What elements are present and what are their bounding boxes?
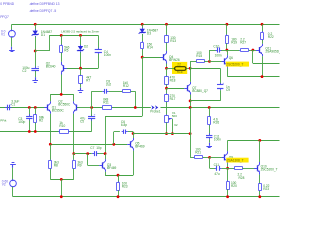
junction rail-D1	[34, 23, 37, 26]
wire driver node jog down	[209, 157, 211, 168]
label Q2 BC640	[46, 62, 56, 69]
label C2 value	[22, 66, 29, 73]
wire R21 left lead	[190, 157, 194, 159]
wire C8 arc top left	[92, 91, 103, 93]
wire base line to R7	[80, 68, 82, 76]
diode D3 1N4687	[139, 28, 146, 36]
wire R18 top	[166, 68, 168, 76]
label X1	[172, 111, 177, 118]
wire V1 to rail	[11, 24, 13, 30]
resistor R15 100	[196, 60, 206, 63]
wire R8 top	[50, 144, 52, 160]
svg-text:500: 500	[172, 114, 177, 118]
probe marker Probe1	[151, 105, 158, 110]
junction bias node	[141, 56, 144, 59]
svg-text:D2: D2	[84, 44, 88, 48]
wire C4 to base line	[98, 54, 100, 68]
junction rail join	[60, 195, 63, 198]
wire C8 arc up	[91, 91, 93, 107]
wire output emitter bus	[228, 76, 280, 78]
svg-text:+: +	[37, 64, 39, 68]
label Q4 BFW26	[169, 55, 180, 62]
wire Q11 emitter down	[262, 56, 264, 76]
highlight Q9 2SA1308_T	[226, 158, 248, 163]
label C9 value	[226, 85, 230, 92]
wire R8-R9 join	[50, 179, 74, 181]
wire C8 to R12	[109, 91, 122, 93]
wire Q1 emitter up	[50, 94, 52, 101]
label Q9	[229, 155, 233, 159]
label R13 value	[170, 36, 176, 43]
resistor R18 470	[165, 76, 169, 85]
label C10 value	[215, 53, 222, 57]
label C11 zobel value	[214, 135, 221, 142]
wire R17 to pot X1	[166, 102, 168, 116]
wire R19 to node A	[226, 43, 228, 50]
text directive .define D0PFQ7 -5	[29, 9, 57, 13]
label V1 value	[1, 30, 6, 37]
svg-text:C5: C5	[80, 120, 84, 124]
resistor R17 270	[165, 93, 169, 102]
resistor R14 150	[141, 41, 144, 50]
wire Q3 base jog down	[87, 154, 89, 166]
wire D1 to node Z	[35, 37, 37, 51]
label R9 value	[78, 160, 83, 167]
svg-text:PFQ7: PFQ7	[0, 15, 9, 19]
wire C11b to Q9 collector	[222, 168, 228, 170]
wire D2 to base line	[80, 52, 82, 68]
label X1 wiper 62	[174, 123, 178, 127]
capacitor C3 100p	[26, 114, 32, 120]
svg-text:R27: R27	[240, 40, 246, 44]
junction rail R25	[258, 195, 261, 198]
wire R20 to rail	[227, 189, 229, 197]
resistor R8 3k3	[49, 160, 52, 170]
label D3	[147, 29, 158, 36]
net label PFtk	[0, 119, 7, 123]
resistor R20 100	[227, 180, 230, 190]
wire zobel top	[209, 108, 211, 118]
svg-text:R13: R13	[170, 39, 176, 43]
svg-text:.define: .define	[29, 9, 39, 13]
junction VAS output node	[189, 67, 192, 70]
wire Q3 collector up	[105, 154, 107, 160]
wire R8 bottom	[50, 169, 52, 180]
wire D3 to R14	[142, 34, 144, 42]
wire R26 to C11	[209, 125, 211, 135]
wire Q2 emitter up	[73, 94, 75, 101]
wire top supply rail	[12, 24, 280, 26]
wire Q4 emitter to R16	[167, 68, 175, 70]
resistor R25 0.22	[259, 183, 262, 192]
svg-text:2SC5200_T: 2SC5200_T	[226, 63, 243, 67]
wire zener line corner to C4	[98, 35, 100, 49]
svg-text:C10: C10	[213, 45, 219, 49]
wire feedback node line	[92, 107, 151, 109]
wire rail to D1	[35, 24, 37, 30]
resistor R10 1k	[59, 130, 70, 134]
junction base line R7	[79, 67, 82, 70]
junction collector line R21 column	[189, 132, 192, 135]
wire C5 to return line	[91, 119, 93, 132]
label R18 value	[170, 75, 176, 82]
transistor Q3 BF469	[99, 159, 105, 172]
junction Q9 collector node	[226, 167, 229, 170]
ground below R7	[78, 88, 84, 93]
svg-text:BC880_Q7: BC880_Q7	[192, 89, 208, 93]
label D2	[84, 44, 88, 48]
wire C9 bottom lead	[220, 90, 222, 101]
wire R13 to Q4 collector	[166, 43, 168, 51]
junction C7 base tap	[86, 152, 89, 155]
svg-text:R9: R9	[78, 163, 82, 167]
label Q7 BC880	[192, 86, 208, 93]
wire rail to D3	[142, 24, 144, 29]
svg-text:BFW26: BFW26	[169, 58, 180, 62]
svg-text:47u: 47u	[214, 172, 220, 176]
wire R17 top	[166, 88, 168, 94]
svg-text:2SC5200_T: 2SC5200_T	[261, 167, 278, 171]
junction output line zobel	[208, 106, 211, 109]
svg-text:.define: .define	[29, 2, 39, 6]
capacitor C9 1n	[217, 81, 224, 90]
wire Q5 emitter down	[133, 151, 135, 176]
transistor Q2 BC640 pnp current source	[61, 62, 67, 75]
label Q11	[265, 46, 282, 53]
wire node Z to C2	[35, 51, 37, 68]
svg-text:C2: C2	[22, 69, 26, 73]
wire collector line east	[133, 133, 190, 135]
wire Q2 collector down	[73, 114, 75, 154]
wire tail emitter bus	[50, 94, 74, 96]
capacitor C1 3.3uF input	[5, 103, 12, 111]
svg-text:C7: C7	[90, 146, 94, 150]
svg-text:C11: C11	[214, 163, 220, 167]
junction Q3 collector node	[104, 152, 107, 155]
wire bias jog down	[105, 116, 107, 154]
wire V2 to bottom rail	[12, 187, 14, 197]
wire jog up to zener line	[49, 35, 51, 51]
wire node B bootstrap down	[252, 50, 254, 63]
wire rail to R22	[262, 24, 264, 32]
wire R2 to return line	[35, 123, 37, 132]
junction Q2 collector node	[72, 152, 75, 155]
wire bias node to Q4 base	[142, 57, 161, 59]
wire input to C3	[29, 108, 31, 116]
svg-text:R21: R21	[195, 151, 201, 155]
label R8 value	[54, 160, 59, 167]
label R10 value	[59, 121, 65, 128]
label C4 value	[104, 50, 111, 57]
resistor R21 100	[193, 156, 203, 159]
wire R21 column	[190, 108, 192, 158]
svg-text:D0PFQ7 -5: D0PFQ7 -5	[40, 9, 57, 13]
wire Q9 collector to R28	[228, 168, 235, 170]
resistor R19 180	[226, 35, 229, 45]
wire VAS node up to R15	[190, 61, 192, 68]
wire C6 left lead	[114, 131, 120, 133]
label R16 name	[177, 70, 183, 74]
transistor Q5 BF469	[127, 138, 133, 151]
junction Q7 emitter node	[189, 100, 192, 103]
wire R9 bottom	[73, 169, 75, 180]
transistor Q2 BC550C diff pair right	[74, 101, 80, 114]
wire Q2 base line	[67, 68, 99, 70]
svg-text:R7: R7	[86, 79, 90, 83]
comment LM385 replaced by Zener	[61, 30, 99, 34]
label R19 value	[231, 37, 237, 44]
label Q6	[229, 56, 233, 60]
svg-text:R10: R10	[59, 124, 65, 128]
svg-text:R15: R15	[196, 54, 202, 58]
wire R5 to Q2 emitter	[61, 53, 63, 62]
junction C6 tap	[112, 143, 115, 146]
junction feedback node	[90, 106, 93, 109]
wire emitter bus Q5-Q3	[105, 175, 133, 177]
svg-text:R2: R2	[39, 119, 43, 123]
wire Q3 base wire	[88, 165, 100, 167]
wire R12 to corner	[131, 91, 136, 93]
wire Q1 collector to Q5 base	[50, 144, 127, 146]
wire C2 to ground	[35, 71, 37, 77]
wire Q7 emitter to output line	[190, 101, 192, 108]
svg-text:BC550C: BC550C	[52, 108, 65, 112]
junction rail R23	[117, 195, 120, 198]
svg-text:C1: C1	[11, 102, 15, 106]
wire R23 to rail	[118, 190, 120, 197]
resistor R23 100	[117, 181, 120, 191]
junction wiper on collector line	[171, 132, 174, 135]
label C1 value	[11, 99, 19, 106]
wire C10 left lead	[210, 50, 217, 52]
wire C10 to node A	[221, 50, 227, 52]
svg-text:R22: R22	[268, 35, 274, 39]
wire X1 bottom	[166, 122, 168, 133]
svg-text:C9: C9	[226, 88, 230, 92]
label R26 value	[213, 118, 219, 125]
svg-text:100p: 100p	[18, 120, 25, 124]
capacitor C11 47u driver	[215, 166, 222, 171]
junction Q4 emitter node	[165, 67, 168, 70]
wire R9 top	[73, 154, 75, 160]
wire Q7 emitter down	[190, 95, 192, 101]
junction Q6 base node	[208, 60, 211, 63]
svg-text:2SA965D_1: 2SA965D_1	[265, 49, 280, 53]
svg-text:BF469: BF469	[135, 145, 145, 149]
resistor R11 6k8	[102, 106, 112, 110]
transistor Q9 2SA1308	[222, 151, 228, 164]
wire R28 to Q10 base	[243, 168, 255, 170]
wire input to R2	[35, 108, 37, 115]
label C7	[90, 146, 101, 150]
wire node B to Q11 base	[253, 50, 257, 52]
svg-text:R23: R23	[122, 185, 128, 189]
highlight Q6 2SC5200_T	[226, 62, 249, 67]
wire C6 right lead	[128, 131, 133, 133]
transistor Q6 2SC5200	[222, 55, 228, 68]
svg-text:R20: R20	[231, 184, 237, 188]
ground below C2	[32, 77, 38, 82]
label Q6 2SC5200_T	[226, 63, 243, 67]
transistor Q11 2SA965D	[256, 44, 262, 57]
label V2 value	[2, 179, 8, 186]
junction node Z	[34, 50, 37, 53]
junction node A	[226, 49, 229, 52]
junction input R2	[34, 106, 37, 109]
wire bottom supply rail	[13, 196, 280, 198]
junction Q9 bus Q10	[258, 139, 261, 142]
wire Q5 collector up	[133, 132, 135, 138]
resistor R5 5k6	[60, 44, 63, 53]
label R25 value	[263, 184, 269, 191]
junction Q5 collector node	[132, 132, 135, 135]
svg-text:2u2: 2u2	[106, 82, 112, 86]
resistor R9 3k3	[73, 160, 76, 170]
label R2 value	[39, 116, 45, 123]
resistor R22 0.2	[261, 31, 264, 41]
capacitor C8 2u2	[102, 89, 109, 94]
wire C7 right lead	[98, 153, 105, 155]
wire C6 left leg up	[113, 132, 115, 145]
resistor R13 130	[165, 35, 169, 44]
junction pot on collector line	[165, 132, 168, 135]
label Q3 BF469	[107, 163, 117, 170]
label R11 value	[103, 98, 109, 105]
svg-text:R16: R16	[177, 70, 183, 74]
junction tail node	[60, 93, 63, 96]
potentiometer X1 500	[165, 115, 169, 124]
wire R14 to bias node	[142, 49, 144, 57]
diode D1 1N4687	[32, 29, 39, 37]
junction return C3	[28, 130, 31, 133]
junction node B	[252, 49, 255, 52]
wire rail to R13	[166, 24, 168, 35]
wire R15 to Q6 base node	[204, 61, 209, 63]
wire C7 line left	[74, 153, 92, 155]
svg-text:R8: R8	[54, 163, 58, 167]
svg-text:22: 22	[177, 63, 181, 67]
svg-text:PFtk: PFtk	[0, 119, 7, 123]
wire Q9 collector down	[227, 164, 229, 169]
wire Q6 emitter down	[227, 68, 229, 77]
svg-text:R11: R11	[103, 101, 109, 105]
label R14 value	[147, 42, 153, 49]
wire R25 to rail	[259, 191, 261, 197]
wire VAS node to C9 corner	[190, 68, 220, 70]
wire bias jog left	[105, 116, 142, 118]
resistor R28 2.2	[234, 167, 244, 170]
wire R23 top	[118, 175, 120, 182]
text directive .define D0PFBND 13	[29, 2, 60, 6]
highlight R16	[172, 62, 187, 74]
svg-text:BC640: BC640	[46, 65, 56, 69]
label R28 value	[238, 172, 243, 176]
label R20 value	[231, 181, 237, 188]
junction input C3	[28, 106, 31, 109]
wire Q1 collector down	[50, 114, 52, 145]
label C11 driver value	[214, 172, 220, 176]
wire Q9 top bus	[228, 140, 280, 142]
label R23 value	[122, 182, 128, 189]
wire rail to R19	[226, 24, 228, 35]
capacitor C6 6.8p	[122, 130, 128, 134]
capacitor C11 100n zobel	[206, 133, 212, 139]
label R21 value	[195, 148, 201, 155]
transistor Q4 BFW26	[161, 51, 167, 64]
ground above V2	[10, 163, 16, 168]
svg-text:R12: R12	[123, 84, 129, 88]
wire driver node to Q9 base	[210, 157, 222, 159]
wiper arrow X1	[168, 118, 172, 120]
text label PFQ7	[0, 15, 9, 19]
junction zener line D2	[79, 34, 82, 37]
junction driver node	[208, 156, 211, 159]
svg-text:+: +	[94, 112, 96, 116]
transistor Q1 BC550C diff pair left	[44, 101, 50, 114]
svg-text:2SA1308_T: 2SA1308_T	[227, 159, 244, 163]
wire Q6 collector up	[227, 50, 229, 55]
wire jog to C11b	[210, 168, 216, 170]
svg-text:BF469: BF469	[107, 166, 117, 170]
resistor R7 4k7	[79, 75, 83, 85]
svg-text:R5: R5	[64, 48, 68, 52]
wire bias column down	[142, 57, 144, 116]
label Q10	[261, 164, 278, 171]
capacitor C7 10p	[92, 151, 99, 156]
diode D2 zener	[77, 45, 84, 53]
wire R20 top	[227, 168, 229, 181]
capacitor C10 100n	[216, 47, 223, 52]
wire Q2 base to feedback node	[77, 107, 92, 109]
svg-text:D3: D3	[147, 32, 151, 36]
svg-text:R28: R28	[239, 176, 245, 180]
label C11 driver	[214, 163, 220, 167]
label R22 value	[268, 32, 274, 39]
wire V1 to ground	[11, 37, 13, 47]
voltage source V2	[10, 179, 17, 187]
svg-text:6.8p: 6.8p	[121, 123, 127, 127]
transistor Q10 2SC5200	[254, 162, 260, 175]
junction output emitter bus	[261, 75, 264, 78]
svg-text:100n: 100n	[214, 138, 221, 142]
svg-text:0 PFBND: 0 PFBND	[0, 2, 15, 6]
junction R8-R9 join	[60, 178, 63, 181]
svg-text:R14: R14	[147, 45, 153, 49]
junction rail-R22	[261, 23, 264, 26]
wire join to bottom rail	[61, 179, 63, 196]
wire return line left	[0, 131, 92, 133]
wire Q10 emitter down	[259, 175, 261, 184]
svg-text:V1: V1	[1, 33, 5, 37]
label R17 value	[170, 94, 176, 101]
svg-text:R19: R19	[231, 40, 237, 44]
wire Q3 emitter down	[105, 172, 107, 176]
label R16 value 22	[177, 63, 181, 67]
voltage source V1	[9, 29, 16, 37]
resistor R27 2.2	[239, 49, 250, 52]
wire R27 to node B	[249, 50, 253, 52]
label R27 value	[240, 37, 246, 44]
svg-text:+: +	[222, 81, 224, 85]
wire Q7 base wire	[167, 88, 185, 90]
svg-text:BC550C: BC550C	[58, 103, 71, 107]
label C5 value	[80, 117, 86, 124]
text directive 0 PFBND	[0, 2, 15, 6]
label R28 name	[239, 176, 245, 180]
resistor R16 22 (highlighted)	[175, 67, 186, 71]
wire bootstrap to edge	[253, 63, 280, 65]
wire X1 wiper down	[172, 119, 174, 134]
